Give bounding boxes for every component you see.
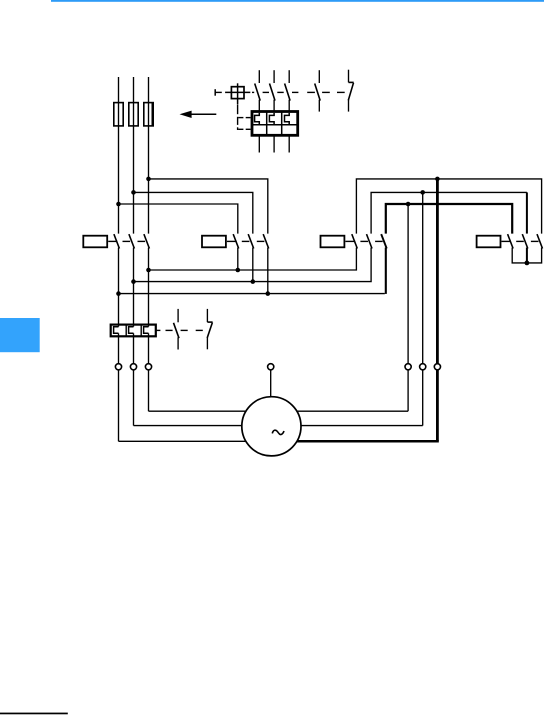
wire L2 to overload relay — [133, 248, 135, 327]
breaker Q1 manual operator — [225, 83, 250, 104]
contactor K4 contact 2 — [522, 234, 528, 248]
terminal W1 — [145, 364, 151, 370]
overload relay F4 auxiliary NO contact — [174, 309, 180, 350]
wire L1 tap to K2 contact 1 — [119, 204, 238, 234]
wire motor lead U2 — [296, 204, 408, 411]
breaker Q1 pole 3 outgoing lead — [288, 135, 290, 153]
wire L1 incomer — [118, 77, 120, 234]
contactor K1 contact 3 — [144, 234, 150, 248]
breaker Q1 auxiliary NC contact — [348, 70, 353, 112]
fuse F2 — [129, 103, 138, 126]
overload relay F4 linkage dashes — [156, 329, 203, 331]
overload relay F4 element 2 — [129, 327, 134, 334]
contactor K2 contact 2 — [248, 234, 254, 248]
wire K2 contact 2 to bus T2 — [252, 248, 254, 282]
contactor K4 contact 1 — [508, 234, 513, 248]
overload relay F4 auxiliary NC contact — [207, 309, 212, 349]
wire bus T2 (L2 to K3 contact 2) — [134, 248, 372, 282]
fuse F3 — [144, 102, 153, 126]
node motor line U2 tap — [406, 202, 411, 207]
contactor K2 contact 1 — [233, 234, 239, 248]
breaker Q1 pole 2 outgoing lead — [273, 135, 275, 153]
wire motor lead V1 — [134, 333, 243, 425]
breaker Q1 overload block — [252, 112, 298, 136]
breaker Q1 operator linkage left stop — [215, 89, 222, 96]
breaker Q1 pole 1 contact — [255, 70, 261, 112]
wire L3 to overload relay — [148, 248, 150, 327]
contactor K1 contact 1 — [114, 234, 120, 248]
contactor K1 coil — [83, 236, 107, 248]
wire L1 to overload relay — [118, 248, 120, 327]
terminal V2 — [420, 364, 426, 370]
wire motor lead W2 (bold) — [296, 179, 439, 441]
wire motor lead W1 — [149, 333, 247, 411]
wire K3 contact 3 drop (bold) — [385, 248, 387, 294]
contactor K3 contact 1 — [352, 234, 358, 248]
wire K4 star bar — [512, 248, 541, 263]
breaker Q1 thermal element 3 — [285, 113, 290, 125]
sidebar tab — [0, 318, 40, 352]
motor M1 — [242, 397, 301, 456]
wire delta bus V (K3 c2 to K4 c2) — [371, 192, 527, 233]
contactor K3 contact 3 — [381, 234, 387, 248]
breaker Q1 pole 3 contact — [285, 70, 291, 112]
breaker Q1 thermal element 2 — [269, 113, 274, 125]
wire K4 contact 2 to star point (bold) — [526, 248, 528, 263]
wire motor lead U1 — [119, 333, 247, 441]
node star point — [525, 261, 530, 266]
breaker Q1 pole 2 contact — [270, 70, 276, 112]
node K2-T3 junction — [266, 291, 271, 296]
wire bus T1 (L3 to K3 contact 1) — [149, 248, 357, 270]
wire L2 tap to K2 contact 2 — [134, 192, 253, 233]
wire delta bus U (K3 c3 to K4 c1, bold) — [385, 203, 513, 234]
wire delta bus W (K3 c1 to K4 c3) — [356, 179, 541, 234]
contactor K3 coil — [321, 236, 345, 248]
node L2 bottom junction — [131, 279, 136, 284]
wire L3 tap to K2 contact 3 — [149, 179, 268, 234]
breaker Q1 pole 1 outgoing lead — [258, 135, 260, 153]
wire bus T3 (L1 to K3 contact 3) — [119, 293, 385, 295]
detail arrow — [181, 111, 216, 117]
node L3 bottom junction — [146, 268, 151, 273]
node L2 tap — [131, 190, 136, 195]
overload relay F4 body — [111, 325, 156, 337]
terminal U2 — [405, 364, 411, 370]
contactor K4 contact 3 — [537, 234, 543, 248]
wire motor lead V2 — [300, 192, 423, 425]
node K2-T2 junction — [251, 279, 256, 284]
contactor K4 linkage dashes — [502, 240, 539, 242]
wire K2 contact 3 to bus T3 — [267, 248, 269, 294]
node motor line W2 tap — [435, 177, 440, 182]
terminal U1 — [115, 364, 121, 370]
node L3 tap — [146, 177, 151, 182]
breaker Q1 trip-unit linkage (dashed) — [238, 105, 251, 131]
contactor K3 contact 2 — [367, 234, 373, 248]
wire K4 contact 2 riser (bold) — [526, 192, 528, 233]
wire L2 incomer — [133, 77, 135, 234]
overload relay F4 element 1 — [114, 327, 119, 334]
terminal W2 — [434, 364, 440, 370]
contactor K2 linkage dashes — [227, 240, 265, 242]
terminal PE — [268, 364, 274, 398]
header rule — [51, 0, 544, 2]
terminal V1 — [130, 364, 136, 370]
overload relay F4 element 3 — [144, 327, 149, 334]
contactor K2 coil — [202, 236, 226, 248]
footer rule — [0, 713, 68, 715]
breaker Q1 thermal element 1 — [255, 113, 260, 125]
contactor K4 coil — [477, 236, 501, 248]
contactor K1 contact 2 — [129, 234, 135, 248]
node L1 bottom junction — [116, 291, 121, 296]
node L1 tap — [116, 202, 121, 207]
wire L3 incomer — [148, 77, 150, 234]
fuse F1 — [114, 103, 123, 126]
wire K2 contact 1 to bus T1 — [237, 248, 239, 270]
contactor K1 linkage dashes — [108, 240, 145, 242]
breaker Q1 auxiliary NO contact — [315, 70, 321, 111]
contactor K3 linkage dashes — [345, 240, 382, 242]
contactor K2 contact 3 — [263, 234, 269, 248]
breaker Q1 linkage dashes — [252, 91, 345, 93]
node K2-T1 junction — [236, 268, 241, 273]
node motor line V2 tap — [420, 190, 425, 195]
